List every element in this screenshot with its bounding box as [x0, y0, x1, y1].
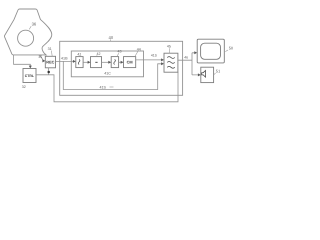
svg-text:41S: 41S	[100, 85, 107, 89]
svg-text:41B: 41B	[61, 56, 68, 60]
svg-text:CM: CM	[127, 60, 133, 65]
svg-text:35: 35	[38, 55, 42, 59]
svg-text:45: 45	[167, 45, 171, 49]
svg-text:REC: REC	[46, 60, 54, 65]
svg-text:31: 31	[48, 47, 52, 51]
svg-text:36: 36	[32, 22, 37, 27]
svg-text:41S: 41S	[151, 53, 158, 57]
svg-text:44: 44	[137, 48, 141, 52]
svg-text:50: 50	[229, 45, 234, 50]
svg-text:43: 43	[118, 50, 122, 54]
svg-text:51: 51	[216, 68, 221, 73]
svg-text:41C: 41C	[104, 71, 111, 75]
svg-text:32: 32	[22, 85, 26, 89]
svg-text:CTRL: CTRL	[25, 74, 35, 78]
svg-text:46: 46	[184, 56, 188, 60]
svg-text:40: 40	[109, 35, 114, 40]
